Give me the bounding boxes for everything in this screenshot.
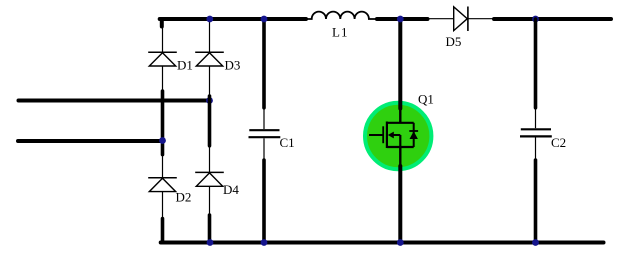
inductor L1 [306, 12, 377, 40]
wire top-left corner [160, 19, 306, 27]
capacitor C1 [249, 108, 295, 160]
svg-text:D1: D1 [177, 58, 193, 73]
svg-text:L1: L1 [332, 25, 348, 40]
wire top right [494, 17, 611, 21]
wire Q1 drain branch [398, 19, 402, 109]
node input line 2 junction [159, 137, 166, 144]
svg-text:C2: C2 [551, 135, 566, 150]
capacitor C2 [520, 108, 566, 160]
node top Q1 junction [397, 16, 404, 23]
wire bottom rail [161, 241, 604, 245]
wire C2 bottom branch [534, 160, 538, 243]
svg-text:D5: D5 [446, 34, 462, 49]
diode D1 [148, 25, 193, 92]
node top C2 branch [532, 16, 539, 23]
wire C2 top branch [534, 19, 538, 108]
transistor Q1 green highlight circle [365, 103, 431, 169]
node top C1 branch [261, 16, 268, 23]
wire C1 top branch [262, 19, 266, 108]
svg-text:D4: D4 [223, 182, 239, 197]
wire input line 2 (bottom) [18, 139, 163, 143]
svg-text:C1: C1 [280, 135, 295, 150]
diode D3 [195, 21, 240, 101]
diode D4 [195, 146, 239, 216]
svg-text:Q1: Q1 [418, 92, 434, 107]
svg-text:D2: D2 [176, 189, 192, 204]
wire D1-D2 branch [161, 91, 165, 155]
wire Q1 source branch [399, 147, 401, 243]
node bottom C1 branch [261, 239, 268, 246]
wire C1 bottom branch [262, 160, 266, 243]
transistor Q1 MOSFET symbol [369, 92, 434, 149]
wire D4 to bottom rail [208, 215, 212, 243]
wire top middle (L1 to D5) [377, 17, 428, 21]
node bottom C2 branch [532, 239, 539, 246]
node bottom Q1 branch [397, 239, 404, 246]
node input line 1 junction [206, 97, 213, 104]
diode D5 [428, 7, 495, 50]
node bottom D4 branch [207, 239, 214, 246]
wire D3-D4 branch [208, 96, 212, 146]
node top D3 branch [206, 16, 213, 23]
wire input line 1 (top) [19, 99, 210, 103]
diode D2 [148, 155, 191, 219]
svg-text:D3: D3 [225, 58, 241, 73]
wire D2 to bottom rail [161, 219, 165, 243]
